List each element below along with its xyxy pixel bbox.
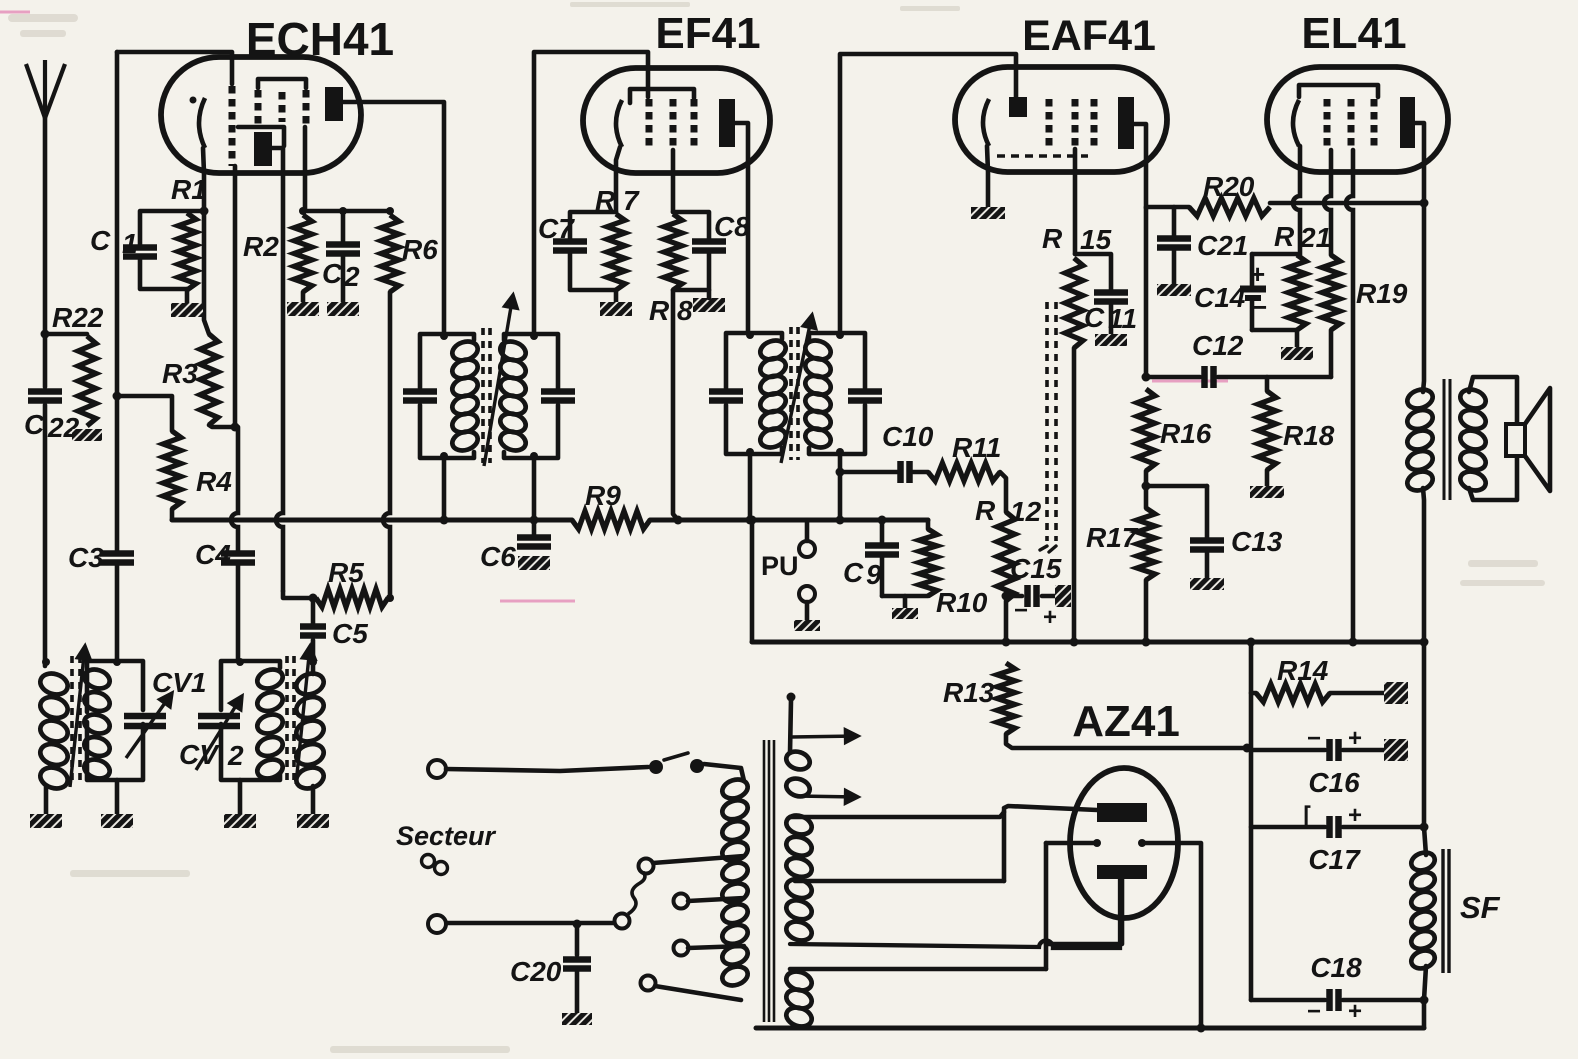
wire C1 box top	[140, 211, 204, 247]
wire PU stub	[805, 520, 810, 541]
svg-text:21: 21	[1299, 222, 1331, 253]
wire SF to C18	[1424, 966, 1426, 1000]
coil SF field	[1409, 850, 1437, 972]
wire AVC link	[1040, 546, 1047, 550]
svg-text:R9: R9	[585, 480, 621, 511]
wire PU to ground	[805, 602, 810, 620]
svg-text:CV1: CV1	[152, 667, 206, 698]
diode plate EAF41	[1009, 97, 1027, 117]
tube AZ41 envelope	[1070, 768, 1178, 918]
block C16 return	[1384, 739, 1408, 761]
wire R16-R17 gap	[1144, 471, 1149, 508]
svg-text:R19: R19	[1356, 278, 1408, 309]
resistor R20	[1189, 198, 1270, 216]
ground under C13	[1190, 578, 1224, 590]
svg-text:R: R	[975, 495, 996, 526]
wire CV1 to ground	[115, 780, 120, 814]
wire IF2 secondary box lower	[809, 405, 865, 454]
wire C14 bracket top	[1252, 252, 1297, 257]
wire C9 lower	[880, 555, 885, 596]
wire to R22	[45, 332, 87, 337]
svg-text:C17: C17	[1308, 844, 1361, 875]
wire EL41 anode out	[1415, 123, 1424, 203]
wire C11 to ground	[1109, 302, 1114, 334]
svg-text:C8: C8	[714, 211, 750, 242]
wire ECH41 g1 top feed	[117, 52, 232, 84]
wire speaker loop	[1469, 377, 1517, 500]
svg-text:C: C	[1084, 302, 1105, 333]
resistor R15	[1065, 258, 1083, 348]
svg-text:R6: R6	[402, 234, 438, 265]
wire IF1 secondary box	[504, 334, 558, 388]
wire C8 box bottom	[673, 251, 709, 290]
resistor R11	[928, 463, 1000, 481]
capacitor C9	[865, 546, 899, 555]
speaker cone	[1525, 388, 1550, 491]
node bus/spine	[1247, 638, 1256, 647]
resistor R17	[1137, 508, 1155, 580]
node C18/SF	[1420, 996, 1429, 1005]
core mains transformer	[764, 740, 774, 1022]
wire L4 to ground	[311, 786, 316, 814]
node IF1 primary/HT rail	[440, 516, 449, 525]
svg-text:C5: C5	[332, 618, 368, 649]
svg-text:+: +	[1250, 259, 1265, 289]
svg-text:C: C	[24, 409, 45, 440]
wire R4 to HT rail	[170, 509, 175, 520]
svg-text:R: R	[1042, 223, 1063, 254]
svg-text:C7: C7	[538, 213, 575, 244]
tuning arrow L1	[70, 646, 90, 787]
resistor R6	[381, 215, 399, 292]
svg-text:−: −	[1014, 597, 1028, 624]
node IF2 sec/rail	[836, 516, 845, 525]
tube EF41 envelope	[583, 68, 770, 173]
terminal mains top	[428, 760, 446, 778]
capacitor C2	[326, 245, 360, 254]
svg-text:C18: C18	[1310, 952, 1362, 983]
wire antenna lead lower	[43, 405, 48, 666]
switch lever	[664, 753, 688, 760]
node CV1 top	[113, 658, 121, 666]
wire screen rail 203	[1270, 201, 1424, 206]
wire C18 to rail	[1422, 1000, 1427, 1028]
svg-text:R1: R1	[171, 174, 207, 205]
wire HT rail left	[172, 518, 444, 523]
svg-text:R 7: R 7	[595, 185, 640, 216]
wire R2 to ground	[301, 292, 306, 302]
wire CV2 box frame lower	[221, 724, 280, 780]
wire EF41 anode out	[735, 123, 748, 333]
wire IF2 primary box	[726, 333, 782, 388]
cathode ECH41	[199, 98, 205, 148]
link cathode-g3 EAF41	[997, 154, 1088, 157]
wire HT rail right	[650, 518, 928, 523]
filament dot 1 AZ41	[1093, 839, 1101, 847]
node C2 rail	[339, 207, 347, 215]
svg-text:9: 9	[866, 559, 882, 590]
capacitor C7	[553, 242, 587, 251]
anode EF41	[719, 99, 735, 147]
ground under C20	[562, 1013, 592, 1025]
capacitor C22	[28, 392, 62, 401]
resistor R5	[316, 589, 388, 607]
terminal tap D	[615, 914, 630, 929]
wire R4 link	[117, 396, 172, 431]
arrow CV1	[126, 693, 172, 758]
node C15 tap	[1002, 592, 1011, 601]
node detector tap	[836, 468, 845, 477]
node IF1 s top	[530, 332, 538, 340]
core IF1 dashed	[483, 328, 490, 463]
wire EF41 g3 bracket	[630, 89, 694, 103]
wire C15 link	[1006, 594, 1022, 599]
wire filament drop	[1044, 843, 1049, 969]
wire IF2 secondary top	[840, 54, 1016, 333]
node IF2 s top	[836, 331, 844, 339]
wire PU box left edge	[750, 520, 755, 642]
svg-text:C4: C4	[195, 539, 231, 570]
node IF1 sec/C6	[530, 516, 539, 525]
node IF2 p top	[746, 331, 754, 339]
wire anode to R20	[1146, 205, 1189, 210]
ground under R22	[72, 429, 102, 441]
node IF2 p bot	[746, 448, 754, 456]
wire C18 right	[1343, 998, 1424, 1003]
wire EF41 cathode pin	[616, 147, 620, 212]
wire CV1 box frame lower	[87, 722, 143, 780]
node R2 rail	[299, 207, 307, 215]
resistor R1	[178, 213, 196, 290]
node antenna-R22	[41, 330, 50, 339]
capacitor C16	[1330, 739, 1339, 761]
wire cathode to R3	[204, 211, 209, 334]
antenna	[26, 60, 65, 118]
svg-text:R3: R3	[162, 358, 198, 389]
resistor R22	[78, 336, 96, 426]
capacitor C10	[901, 461, 910, 483]
svg-text:R22: R22	[52, 302, 104, 333]
wire mains bottom	[447, 921, 613, 926]
node R6 rail	[386, 207, 394, 215]
ground under C21	[1157, 284, 1191, 296]
wire ECH41 cathode pin	[203, 148, 204, 211]
wire R18 stub	[1265, 377, 1270, 391]
svg-text:2: 2	[227, 740, 244, 771]
grid g2 EL41	[1348, 99, 1355, 150]
terminal heater ct	[787, 693, 796, 702]
grid g1 EF41	[646, 99, 653, 150]
svg-text:2: 2	[343, 261, 360, 292]
wavy tap link	[628, 872, 645, 914]
svg-text:C20: C20	[510, 956, 562, 987]
wire osc anode line	[276, 173, 283, 591]
capacitor IF2 secondary	[848, 392, 882, 401]
wire osc grid line upper	[115, 52, 120, 396]
wire switch to primary	[704, 764, 744, 781]
svg-text:R17: R17	[1086, 522, 1139, 553]
svg-text:C12: C12	[1192, 330, 1244, 361]
wire g1 to C4	[231, 427, 238, 553]
grid g1 ECH41	[229, 86, 236, 166]
node R3/R4 junction	[231, 423, 240, 432]
wire HT bottom to plate2	[790, 879, 1120, 948]
svg-text:C: C	[843, 557, 864, 588]
svg-text:R: R	[1274, 221, 1295, 252]
node g2 line/bus	[1349, 638, 1358, 647]
capacitor IF1 secondary	[541, 392, 575, 401]
coil rectifier filament winding	[784, 968, 814, 1029]
svg-text:C15: C15	[1010, 553, 1062, 584]
ground under C8	[693, 298, 725, 312]
wire detector line	[840, 470, 897, 475]
ground under CV1	[101, 814, 133, 828]
wire rail377 right	[1218, 375, 1331, 380]
switch contact 2	[690, 759, 704, 773]
svg-text:R5: R5	[328, 557, 364, 588]
wire osc anode to R5	[283, 591, 313, 598]
coil L1 antenna	[38, 670, 71, 792]
wire spine	[1249, 642, 1254, 1000]
ground under C9/R10	[892, 608, 918, 619]
grid g4 ECH41	[303, 90, 310, 127]
resistor R8	[664, 214, 682, 290]
resistor R21 second	[1322, 255, 1340, 330]
node R17/bus	[1142, 638, 1151, 647]
coil OPT primary	[1405, 386, 1435, 493]
wire CV2 box frame	[221, 661, 280, 710]
wire R7 to ground	[614, 290, 619, 302]
coil IF1 primary	[450, 338, 480, 453]
wire IF1 secondary top	[534, 52, 648, 334]
svg-text:R18: R18	[1283, 420, 1335, 451]
node PU rail	[748, 516, 757, 525]
ground under R2	[287, 302, 319, 316]
grid g2 ECH41	[255, 90, 262, 127]
node R16 top	[1142, 373, 1151, 382]
terminal mains bottom	[428, 915, 446, 933]
grid g3 EF41	[691, 99, 698, 150]
block R14 return	[1384, 682, 1408, 704]
speaker driver	[1506, 424, 1525, 456]
svg-text:SF: SF	[1460, 890, 1501, 925]
wire IF1 secondary box lower	[504, 405, 558, 458]
grid g1 EAF41	[1046, 99, 1053, 149]
svg-text:C21: C21	[1197, 230, 1248, 261]
capacitor C15	[1028, 585, 1037, 607]
wire R8 to HT rail	[673, 290, 678, 520]
node IF1 p bot	[440, 452, 448, 460]
wire R17-C13 link	[1146, 484, 1207, 489]
wire L4 to C5	[311, 640, 316, 674]
terminal tap B	[674, 894, 689, 909]
wire ECH41 screen pin	[303, 127, 308, 211]
coil IF2 secondary	[803, 337, 833, 450]
tube EAF41 envelope	[955, 67, 1167, 172]
wire C20 stub	[575, 923, 580, 955]
svg-text:R2: R2	[243, 231, 279, 262]
node L1 top	[42, 658, 50, 666]
wire EAF41 g2 pin	[1073, 149, 1078, 254]
node IF1 p top	[440, 332, 448, 340]
capacitor C3	[100, 554, 134, 563]
svg-text:EL41: EL41	[1301, 9, 1406, 58]
node R16/R17	[1142, 482, 1151, 491]
capacitor CV2	[198, 716, 240, 726]
wire R14 to block	[1330, 691, 1384, 696]
svg-text:R16: R16	[1160, 418, 1212, 449]
node cathode/R1	[200, 207, 209, 216]
resistor R4	[163, 431, 181, 509]
wire EF41 g2 pin	[671, 150, 676, 212]
grid g2 EF41	[670, 99, 677, 150]
wire C17 left	[1251, 825, 1325, 830]
dashed AVC line	[1047, 302, 1056, 541]
node R13 output	[1243, 744, 1252, 753]
capacitor C14	[1240, 289, 1266, 298]
resistor R13	[997, 663, 1015, 734]
svg-text:CV: CV	[179, 739, 220, 770]
switch contact 1	[649, 760, 663, 774]
cathode EL41	[1293, 100, 1299, 146]
wire IF2 secondary bottom	[838, 454, 843, 520]
wire R3 bottom link	[209, 425, 235, 427]
wire C7 box bottom	[570, 251, 616, 290]
capacitor C21	[1157, 239, 1191, 248]
wire osc grid line to C3	[115, 396, 120, 553]
wire heater feed 2	[796, 790, 858, 803]
anode 1 AZ41	[1097, 803, 1147, 822]
ground under C2	[327, 302, 359, 316]
wire C13 stub	[1205, 486, 1210, 538]
wire HT riser	[1002, 810, 1007, 881]
anode (heptode) ECH41	[325, 87, 343, 121]
tuning arrow IF1	[484, 295, 517, 466]
node anode/screen rail	[1420, 199, 1429, 208]
capacitor C4	[221, 554, 255, 563]
ground under R1	[171, 303, 203, 317]
wire C4 to CV2 box	[236, 563, 241, 661]
resistor R3	[200, 334, 218, 425]
resistor R21	[1288, 255, 1306, 330]
tube ECH41 envelope	[161, 57, 361, 173]
cathode EF41	[616, 100, 622, 147]
ground under CV2	[224, 814, 256, 828]
wire plate2 stub	[1046, 879, 1122, 944]
svg-text:C14: C14	[1194, 282, 1246, 313]
wire C8 to ground	[707, 290, 712, 298]
wire to ground C9R10	[903, 596, 908, 608]
resistor R2	[294, 215, 312, 292]
arrow CV2	[196, 696, 242, 770]
terminal tap E	[641, 976, 656, 991]
svg-text:R20: R20	[1203, 171, 1255, 202]
ground under R7	[600, 302, 632, 316]
node C5/R5	[309, 594, 318, 603]
svg-text:EAF41: EAF41	[1022, 12, 1156, 60]
wire IF1 secondary bottom stub	[532, 457, 537, 537]
resistor R10	[919, 529, 937, 596]
wire R10 top stub	[926, 520, 931, 529]
wire IF2 primary bottom stub	[748, 454, 753, 520]
wire filament line	[1046, 841, 1097, 846]
coil HT winding	[784, 812, 814, 943]
anode 2 AZ41	[1097, 865, 1147, 879]
wire EL41 grid pin	[1324, 150, 1331, 255]
svg-text:C: C	[90, 225, 111, 256]
wire ECH41 screen bracket	[258, 79, 306, 88]
grid g3 ECH41	[279, 92, 286, 122]
core IF2 dashed	[791, 327, 798, 460]
wire IF2 secondary box	[809, 333, 865, 388]
wire C8 box top	[673, 212, 709, 241]
wire C10 to R11	[913, 470, 928, 475]
wire B+ bus	[752, 640, 1424, 645]
capacitor CV1	[124, 716, 166, 726]
node OPT/bus	[1420, 638, 1429, 647]
ground under R21	[1281, 347, 1313, 360]
node R12/bus	[1002, 638, 1011, 647]
heater dot ECH41	[190, 97, 197, 104]
grid g3 EAF41	[1091, 99, 1098, 149]
svg-text:C: C	[322, 258, 343, 289]
ground under L1	[30, 814, 62, 828]
capacitor C17	[1330, 816, 1339, 838]
capacitor C5	[300, 627, 326, 636]
anode EL41	[1400, 97, 1415, 148]
terminal PU bottom	[799, 586, 815, 602]
core L3/L4 dashed	[287, 656, 294, 784]
svg-text:+: +	[1043, 604, 1057, 631]
svg-text:R14: R14	[1277, 655, 1329, 686]
ground under L4	[297, 814, 329, 828]
wire tap B	[688, 898, 744, 901]
resistor R7	[607, 214, 625, 290]
wire C3 to CV1 box	[115, 563, 120, 661]
wire antenna lead	[43, 116, 48, 387]
wire ECH41 triode grid link	[238, 127, 284, 146]
wire AVC link 2	[1049, 546, 1056, 552]
svg-text:1: 1	[122, 228, 138, 259]
wire CV2 to ground	[238, 780, 243, 814]
capacitor C1	[123, 248, 157, 257]
svg-text:EF41: EF41	[655, 9, 760, 58]
svg-text:C6: C6	[480, 541, 516, 572]
wire C16 left	[1251, 748, 1325, 753]
capacitor C20	[563, 960, 591, 969]
svg-text:R4: R4	[196, 466, 232, 497]
svg-text:C16: C16	[1308, 767, 1360, 798]
node filament/rail	[1197, 1024, 1206, 1033]
wire tap C	[688, 946, 744, 948]
capacitor IF1 primary	[403, 392, 437, 401]
wire C9 stub	[880, 520, 885, 542]
wire R18 to ground	[1265, 470, 1270, 486]
wire triode anode out	[272, 148, 283, 173]
wire R17 to bus	[1144, 580, 1149, 642]
wire HT tap	[795, 879, 1004, 884]
wire EAF41 cathode pin	[987, 146, 988, 207]
wire IF2 primary box lower	[726, 405, 782, 454]
node IF2 s bot	[836, 448, 844, 456]
wire C1 box bottom	[140, 257, 187, 289]
coil L3 oscillator	[255, 666, 285, 781]
capacitor IF2 primary	[709, 392, 743, 401]
anode (triode) ECH41	[254, 132, 272, 166]
wire HT top to plate	[790, 812, 1004, 817]
ground EAF41 cathode	[971, 207, 1005, 219]
wire C17 to SF	[1424, 827, 1426, 855]
